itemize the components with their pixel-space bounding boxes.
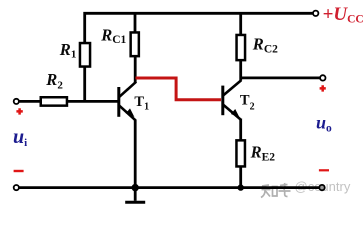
junction dot at Re2 bottom xyxy=(238,184,244,190)
wire: output wire to uo terminal xyxy=(241,77,321,80)
ground bar xyxy=(125,201,145,204)
watermark: zhihu logo glyphs (drawn strokes) xyxy=(261,183,291,198)
terminal: input - (open circle) xyxy=(14,185,19,190)
wire: T2 emitter vertical xyxy=(239,119,242,141)
ground stub xyxy=(134,188,137,201)
wire: input rail through R2 to T1 base xyxy=(19,100,118,103)
wire: bottom rail xyxy=(19,186,320,189)
wire: T2 collector vertical xyxy=(239,61,242,81)
transistor T2 base bar xyxy=(221,86,224,116)
wire: Rc2 top lead xyxy=(239,13,242,35)
resistor R2 body xyxy=(41,97,67,105)
terminal: input + (open circle) xyxy=(14,99,19,104)
polarity mark: input minus xyxy=(14,170,24,172)
transistor T2 emitter arrowhead xyxy=(231,109,240,118)
resistor Rc2 body xyxy=(237,35,246,60)
transistor T1 collector stroke xyxy=(119,82,136,98)
wire: Re2 bottom lead xyxy=(239,167,242,188)
polarity mark: output plus xyxy=(320,85,326,91)
transistor T1 emitter arrowhead xyxy=(126,108,135,117)
transistor T1 emitter stroke xyxy=(119,105,136,120)
resistor Rc1 body xyxy=(131,32,139,56)
terminal: +Ucc (open circle) xyxy=(313,11,318,16)
wire: red coupling wire from T1 collector to T2 base xyxy=(136,78,222,100)
wire: R1 bottom lead down to input rail xyxy=(83,67,86,102)
wire: +Ucc top rail with corner down to R1 xyxy=(85,13,313,42)
terminal: output - (open circle, darkened by watermark glyph) xyxy=(319,185,324,190)
polarity mark: output minus xyxy=(319,169,329,171)
transistor T1 base bar xyxy=(117,87,120,117)
junction dot at T1 emitter / ground node xyxy=(132,184,139,191)
transistor T2 emitter stroke xyxy=(223,104,241,119)
terminal: output + (open circle) xyxy=(320,75,325,80)
wire: Rc1 bottom lead / T1 collector vertical xyxy=(134,57,137,83)
wire: T1 emitter vertical xyxy=(134,120,137,188)
resistor Re2 body xyxy=(236,140,245,166)
wire: Rc1 top lead xyxy=(134,13,137,32)
resistor R1 body xyxy=(80,43,90,67)
polarity mark: input plus xyxy=(16,108,22,114)
transistor T2 collector stroke xyxy=(223,80,241,96)
